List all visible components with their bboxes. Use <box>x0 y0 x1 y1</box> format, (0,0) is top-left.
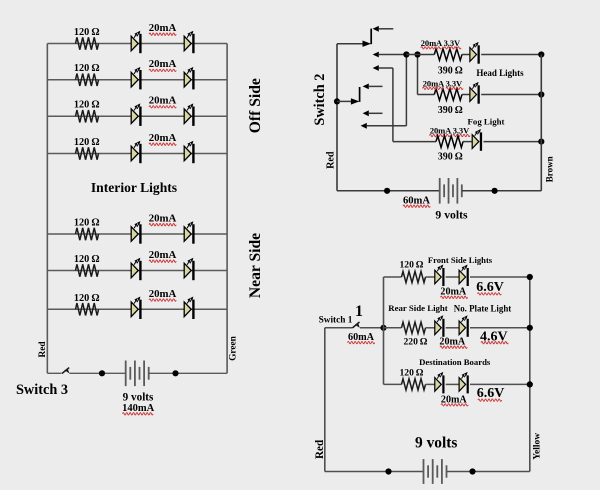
svg-text:Switch 1: Switch 1 <box>319 316 353 326</box>
svg-text:9 volts: 9 volts <box>435 209 468 222</box>
svg-text:20mA: 20mA <box>149 213 177 225</box>
svg-text:Head Lights: Head Lights <box>476 68 524 78</box>
svg-text:No. Plate Light: No. Plate Light <box>454 303 511 313</box>
svg-text:20mA: 20mA <box>149 288 177 300</box>
svg-text:Switch 3: Switch 3 <box>16 382 68 398</box>
svg-text:9 volts: 9 volts <box>123 392 154 404</box>
svg-text:20mA: 20mA <box>149 22 177 34</box>
svg-text:Green: Green <box>229 335 239 361</box>
svg-text:390 Ω: 390 Ω <box>438 66 463 77</box>
svg-text:Switch 2: Switch 2 <box>312 74 328 126</box>
svg-text:Near Side: Near Side <box>247 233 264 298</box>
svg-text:1: 1 <box>355 303 363 320</box>
svg-text:20mA: 20mA <box>149 249 177 261</box>
svg-text:Destination Boards: Destination Boards <box>419 357 491 367</box>
svg-text:6.6V: 6.6V <box>476 280 504 295</box>
svg-text:120 Ω: 120 Ω <box>74 27 100 38</box>
svg-text:20mA: 20mA <box>149 132 177 144</box>
svg-text:120 Ω: 120 Ω <box>74 100 100 111</box>
svg-text:120 Ω: 120 Ω <box>74 63 100 74</box>
svg-text:Off Side: Off Side <box>247 78 264 133</box>
svg-text:390 Ω: 390 Ω <box>438 105 463 116</box>
svg-text:Red: Red <box>314 439 326 459</box>
svg-text:Yellow: Yellow <box>533 433 543 460</box>
svg-text:Interior Lights: Interior Lights <box>91 180 177 195</box>
svg-text:Front Side Lights: Front Side Lights <box>428 255 493 265</box>
svg-text:120 Ω: 120 Ω <box>74 293 100 304</box>
svg-text:120 Ω: 120 Ω <box>400 260 424 271</box>
svg-text:Red: Red <box>326 151 337 169</box>
svg-text:120 Ω: 120 Ω <box>74 137 100 148</box>
svg-text:120 Ω: 120 Ω <box>74 254 100 265</box>
svg-text:390 Ω: 390 Ω <box>438 151 463 162</box>
svg-text:Rear Side Light: Rear Side Light <box>388 303 448 313</box>
svg-text:220 Ω: 220 Ω <box>404 337 428 348</box>
svg-text:6.6V: 6.6V <box>477 386 505 401</box>
svg-text:9 volts: 9 volts <box>415 435 457 452</box>
svg-text:120 Ω: 120 Ω <box>74 218 100 229</box>
svg-text:120 Ω: 120 Ω <box>400 368 424 379</box>
svg-text:20mA: 20mA <box>149 95 177 107</box>
svg-text:20mA: 20mA <box>149 58 177 70</box>
svg-text:Red: Red <box>38 341 48 358</box>
svg-text:Fog Light: Fog Light <box>468 117 505 127</box>
svg-text:Brown: Brown <box>544 156 554 182</box>
